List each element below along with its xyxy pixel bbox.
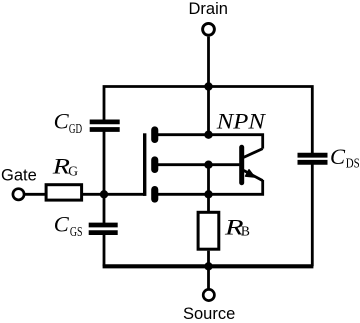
transistor Q1 emitter diagonal bbox=[244, 170, 263, 180]
wire RB to bottom rail bbox=[207, 251, 210, 267]
svg-text:NPN: NPN bbox=[216, 108, 267, 133]
capacitor CDS bbox=[298, 144, 360, 170]
MOSFET M1 gate line bbox=[143, 133, 146, 196]
wire left vertical CGS to bottom rail bbox=[103, 233, 106, 267]
svg-text:Drain: Drain bbox=[189, 0, 228, 18]
svg-text:DS: DS bbox=[346, 155, 360, 170]
node gate junction bbox=[100, 190, 108, 198]
MOSFET M1 channel bar source bbox=[151, 186, 158, 203]
terminal Drain bbox=[189, 0, 228, 35]
wire source vertical bbox=[207, 266, 210, 289]
resistor RB bbox=[198, 212, 250, 249]
svg-text:Source: Source bbox=[183, 305, 235, 323]
terminal Source bbox=[183, 289, 235, 323]
node junction bottom wire bbox=[204, 190, 212, 198]
svg-text:C: C bbox=[330, 144, 346, 169]
wire top (drain) wire to NPN collector corner bbox=[157, 135, 263, 149]
wire gate to RG bbox=[25, 193, 46, 196]
svg-text:GD: GD bbox=[69, 121, 82, 136]
resistor RG bbox=[46, 153, 82, 200]
MOSFET M1 channel bar body bbox=[151, 156, 158, 173]
svg-text:B: B bbox=[241, 224, 250, 239]
node junction middle wire bbox=[204, 161, 212, 169]
MOSFET M1 channel bar drain bbox=[151, 126, 158, 143]
wire bottom (source/emitter) wire bbox=[157, 180, 263, 194]
node junction top wire bbox=[204, 131, 212, 139]
svg-text:Gate: Gate bbox=[1, 166, 37, 184]
svg-text:C: C bbox=[54, 212, 70, 237]
node junction top rail bbox=[204, 82, 212, 90]
transistor Q1 collector diagonal bbox=[244, 149, 263, 158]
svg-text:C: C bbox=[54, 109, 70, 134]
capacitor CGD bbox=[54, 109, 120, 137]
wire left vertical CGD to CGS bbox=[103, 130, 106, 226]
wire RG to gate node and on to mosfet gate bbox=[83, 193, 145, 196]
transistor Q1 emitter arrow bbox=[246, 170, 255, 177]
transistor Q1 base bar bbox=[239, 145, 244, 185]
wire drain vertical bbox=[207, 37, 210, 135]
wire top rail with left and right corners bbox=[104, 87, 312, 156]
terminal Gate bbox=[1, 166, 37, 200]
wire bottom rail bbox=[103, 264, 314, 268]
capacitor CGS bbox=[54, 212, 118, 240]
wire middle node down to RB bbox=[207, 165, 210, 212]
svg-text:GS: GS bbox=[70, 224, 83, 239]
wire middle (body/base) wire bbox=[157, 163, 239, 166]
svg-text:G: G bbox=[68, 164, 78, 179]
node junction bottom rail bbox=[204, 262, 212, 270]
wire right vertical CDS to bottom rail bbox=[311, 162, 314, 266]
